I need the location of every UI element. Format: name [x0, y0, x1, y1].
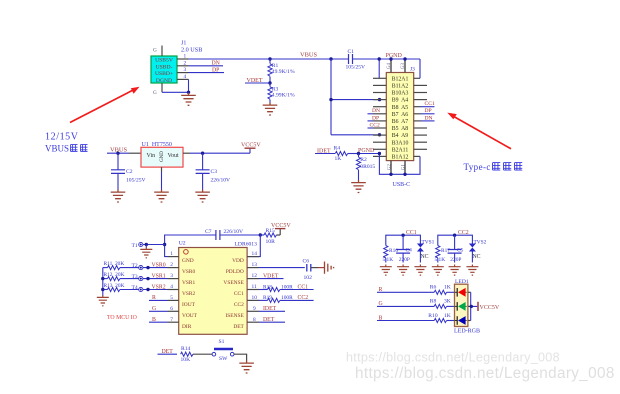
wire Vout to VCC5V — [190, 148, 250, 153]
svg-text:1K: 1K — [444, 285, 451, 291]
wire left vertical R11-R13 — [102, 268, 104, 296]
J1 pin G bottom — [153, 83, 162, 96]
svg-text:R11 20K: R11 20K — [104, 261, 125, 267]
svg-text:VBUS: VBUS — [300, 52, 317, 59]
ground R3 — [263, 103, 278, 116]
svg-text:DET: DET — [233, 324, 244, 330]
svg-text:CC2: CC2 — [458, 230, 469, 236]
svg-text:G2: G2 — [388, 163, 393, 169]
ground C2 — [111, 190, 126, 203]
svg-text:12/15V: 12/15V — [45, 132, 79, 143]
resistor R15 10R — [260, 228, 280, 245]
svg-text:G: G — [379, 301, 383, 307]
U2 pin numbers left — [170, 251, 173, 323]
resistor R12 20K — [103, 272, 139, 281]
wire CC1 net top — [386, 235, 421, 242]
svg-text:CC2: CC2 — [234, 302, 244, 308]
wire VDET stub — [245, 82, 270, 84]
svg-text:DIR: DIR — [182, 324, 192, 330]
wire VBUS vertical to type-c — [331, 59, 380, 135]
wire C6 to ground — [311, 267, 318, 269]
resistor R3 4.99K/1% — [268, 83, 295, 103]
svg-text:USBD+: USBD+ — [155, 71, 173, 77]
wire IDET — [315, 153, 335, 155]
junction PGND R2 — [357, 152, 360, 155]
svg-text:DGND: DGND — [156, 78, 172, 84]
svg-text:USB5V: USB5V — [155, 58, 173, 64]
svg-text:T2: T2 — [132, 263, 138, 269]
svg-text:R6: R6 — [430, 285, 437, 291]
svg-text:B9 A4: B9 A4 — [392, 98, 409, 104]
svg-text:NC: NC — [421, 254, 429, 260]
svg-text:ISENSE: ISENSE — [226, 313, 245, 319]
ground C6 rotated — [325, 262, 334, 274]
power port VCC5V at R15 — [271, 223, 291, 229]
svg-text:C6: C6 — [303, 258, 310, 264]
svg-text:1K: 1K — [335, 156, 342, 162]
svg-text:DP: DP — [425, 108, 432, 114]
wire R pin5 — [149, 299, 168, 301]
svg-text:G: G — [153, 48, 157, 54]
svg-text:VSR1: VSR1 — [182, 280, 195, 286]
svg-text:3: 3 — [170, 273, 173, 279]
svg-text:B5 A8: B5 A8 — [392, 126, 409, 132]
resistor R16 5.1K — [383, 242, 399, 263]
wire DET to R14 — [158, 353, 178, 355]
ground TVS1 — [414, 265, 426, 276]
USB-C shield pin G1 — [402, 161, 407, 175]
svg-text:Type-c: Type-c — [464, 162, 491, 172]
wire B net to R10 — [377, 320, 434, 322]
ground R2 — [351, 180, 366, 193]
svg-text:R4: R4 — [334, 146, 341, 152]
wire pin13 to C6 — [259, 267, 305, 269]
junction R15 pin14 — [259, 233, 262, 236]
svg-text:14: 14 — [252, 251, 258, 257]
wire B pin7 — [149, 321, 168, 323]
junction G2 — [389, 173, 392, 176]
svg-text:NC: NC — [473, 254, 481, 260]
resistor R19 100R — [259, 295, 314, 302]
svg-text:B10A3: B10A3 — [392, 91, 409, 97]
wire R net to R6 — [377, 291, 434, 293]
svg-text:DP: DP — [212, 67, 219, 73]
svg-text:11: 11 — [252, 284, 257, 290]
svg-text:CC1: CC1 — [425, 101, 435, 107]
connector J3 USB-C body — [386, 73, 413, 161]
svg-text:VDD: VDD — [232, 258, 244, 264]
wire VBUS rail — [189, 58, 349, 60]
svg-text:G1: G1 — [402, 163, 407, 169]
svg-text:VDET: VDET — [247, 78, 263, 84]
svg-text:5: 5 — [170, 295, 173, 301]
wire DP left stub — [368, 120, 374, 122]
svg-text:C7: C7 — [205, 229, 212, 235]
svg-text:CC2: CC2 — [298, 295, 309, 301]
svg-text:105/25V: 105/25V — [126, 178, 146, 184]
J1 pin numbers 1 2 3 4 — [184, 54, 187, 80]
svg-text:1K: 1K — [444, 313, 451, 319]
svg-text:VSR1: VSR1 — [152, 273, 166, 279]
power port VCC5V at U1 — [241, 143, 261, 149]
ground C3 — [195, 190, 210, 203]
svg-text:C3: C3 — [211, 169, 218, 175]
J1 pin G top — [153, 46, 162, 57]
junction stub B9A4 — [378, 98, 381, 101]
svg-text:Vout: Vout — [168, 153, 180, 159]
ground U1 — [154, 190, 169, 203]
svg-text:5.1K: 5.1K — [435, 257, 446, 263]
annotation 12/15V VBUS output — [45, 132, 88, 154]
svg-text:VSR0: VSR0 — [182, 269, 195, 275]
junction stub B4A9 — [378, 133, 381, 136]
svg-text:B2A11: B2A11 — [392, 147, 409, 153]
U2 left pin stubs — [168, 257, 179, 323]
svg-text:https://blog.csdn.net/Legendar: https://blog.csdn.net/Legendary_008 — [346, 351, 560, 365]
switch S1 SW — [212, 339, 234, 362]
U1 Vin stub — [129, 152, 141, 154]
svg-text:https://blog.csdn.net/Legendar: https://blog.csdn.net/Legendary_008 — [355, 365, 615, 382]
LED red element — [455, 288, 467, 297]
svg-text:T3: T3 — [132, 274, 138, 280]
LED green element — [455, 302, 467, 311]
svg-text:12: 12 — [252, 273, 258, 279]
resistor R17 5.1K — [435, 242, 451, 263]
svg-text:GND: GND — [160, 151, 165, 162]
junction VSR1 — [146, 277, 149, 280]
wire pin12 VDET — [259, 278, 284, 280]
LED-RGB LED1 body — [455, 284, 468, 326]
svg-text:B6 A7: B6 A7 — [392, 119, 409, 125]
capacitor C4 220P — [396, 235, 412, 263]
svg-text:PGND: PGND — [386, 53, 403, 59]
J1 pin stubs — [177, 59, 189, 79]
wire DN from J1 pin2 — [189, 65, 224, 67]
svg-text:C1: C1 — [348, 49, 355, 55]
capacitor C6 102 — [303, 258, 313, 280]
svg-text:G3: G3 — [401, 62, 406, 68]
svg-text:CC2: CC2 — [370, 122, 380, 128]
ground C4 — [397, 265, 409, 276]
wire C1 right to PGND corner — [353, 58, 421, 60]
junction PGND-B12 — [378, 57, 381, 60]
LED right stubs — [468, 292, 471, 320]
connector J1 body — [151, 56, 177, 84]
wire U2 top rail — [165, 235, 261, 257]
svg-text:PDLDO: PDLDO — [226, 269, 244, 275]
svg-text:CC1: CC1 — [234, 291, 244, 297]
svg-text:100R: 100R — [281, 284, 293, 290]
LED blue element — [455, 316, 467, 325]
svg-text:105/25V: 105/25V — [346, 65, 366, 71]
svg-text:DET: DET — [263, 317, 275, 323]
wire CC2 left stub — [368, 127, 374, 129]
svg-text:R12 20K: R12 20K — [104, 272, 125, 278]
resistor R10 1K — [428, 313, 454, 323]
wire CC2 net top — [438, 235, 473, 242]
USB-C right pin stubs — [414, 78, 427, 156]
resistor R18 100R — [259, 284, 314, 291]
svg-text:DN: DN — [372, 108, 380, 114]
svg-text:DN: DN — [425, 115, 433, 121]
ground J1 — [181, 93, 196, 106]
svg-text:49.9K/1%: 49.9K/1% — [272, 69, 295, 75]
svg-text:2.0 USB: 2.0 USB — [181, 47, 202, 54]
ground TVS2 — [466, 265, 478, 276]
wire G net to R8 — [377, 305, 434, 307]
test point T4 — [132, 285, 168, 292]
junction VBUS-C1 — [329, 57, 332, 60]
ground R11-R13 — [97, 295, 109, 306]
svg-text:1: 1 — [170, 251, 173, 257]
wire pin9 IDET — [259, 310, 285, 312]
svg-text:4: 4 — [170, 284, 173, 290]
svg-text:VSR2: VSR2 — [152, 284, 166, 290]
test point T2 — [132, 263, 168, 270]
resistor R14 10K — [181, 346, 194, 363]
USB-C shield pin G4 — [387, 59, 392, 73]
red arrow left — [70, 87, 140, 123]
USB-C shield pin G3 — [401, 59, 406, 73]
wire VBUS to U1 — [107, 152, 129, 154]
annotation Type-c input — [464, 162, 523, 172]
wire bottom PGND loop — [359, 154, 421, 175]
capacitor C3 226/10V — [196, 153, 230, 189]
svg-text:VBUS: VBUS — [45, 144, 69, 154]
svg-text:J3: J3 — [410, 67, 415, 73]
regulator U1 HT7550 — [141, 147, 183, 167]
svg-text:U2: U2 — [179, 240, 186, 246]
wire LED common anode — [471, 292, 478, 320]
resistor R8 3K — [430, 299, 455, 309]
junction CC1 — [401, 234, 404, 237]
svg-text:R13 20K: R13 20K — [104, 283, 125, 289]
U1 GND stub and wire — [161, 167, 163, 172]
svg-text:C5: C5 — [457, 248, 464, 254]
wire DP from J1 pin3 — [189, 72, 225, 74]
ground C5 — [449, 265, 461, 276]
junction PGND corner — [378, 152, 381, 155]
IC U2 LDR6013 body — [179, 248, 247, 335]
svg-text:0R015: 0R015 — [360, 164, 375, 170]
svg-text:220P: 220P — [399, 257, 410, 263]
svg-text:B11A2: B11A2 — [392, 84, 409, 90]
wire J1 pin4 to ground — [162, 79, 189, 92]
svg-text:TVS2: TVS2 — [474, 239, 487, 245]
USB-C shield pin G2 — [388, 161, 393, 175]
svg-text:5.1K: 5.1K — [383, 257, 394, 263]
wire S1 to ground — [234, 354, 247, 360]
U2 right pin stubs — [247, 257, 259, 323]
junction VBUS B9A4 — [329, 98, 332, 101]
svg-text:TO MCU IO: TO MCU IO — [107, 315, 137, 321]
junction R1-R3 — [268, 81, 271, 84]
svg-text:CC1: CC1 — [406, 230, 417, 236]
svg-text:VDET: VDET — [263, 273, 279, 279]
svg-text:2: 2 — [170, 262, 173, 268]
svg-text:SW: SW — [219, 356, 228, 362]
svg-text:8: 8 — [253, 317, 256, 323]
svg-text:10: 10 — [252, 295, 258, 301]
svg-text:4.99K/1%: 4.99K/1% — [272, 92, 295, 98]
svg-text:G: G — [152, 306, 156, 312]
svg-text:Vin: Vin — [147, 153, 156, 159]
junction T1 rail — [163, 243, 166, 246]
svg-text:G4: G4 — [387, 62, 392, 68]
svg-text:R8: R8 — [430, 299, 437, 305]
junction VSR0 — [146, 266, 149, 269]
wire pin8 DET — [259, 321, 285, 323]
svg-text:102: 102 — [304, 275, 313, 281]
wire DN left stub — [368, 113, 374, 115]
svg-text:T1: T1 — [132, 243, 138, 249]
wire G pin6 — [149, 310, 168, 312]
junction G1 — [403, 173, 406, 176]
svg-text:B7 A6: B7 A6 — [392, 112, 409, 118]
svg-text:R18: R18 — [263, 284, 272, 290]
wire PGND to B12A1 left — [378, 59, 380, 78]
svg-text:6: 6 — [170, 306, 173, 312]
junction J1 ground — [187, 91, 190, 94]
U1 Vout stub — [183, 152, 190, 154]
svg-text:LED-RGB: LED-RGB — [454, 329, 480, 335]
svg-text:100R: 100R — [281, 295, 293, 301]
test point T3 — [132, 274, 168, 281]
svg-text:226/10V: 226/10V — [211, 178, 231, 184]
junction G4 — [389, 57, 392, 60]
junction R13 — [101, 288, 104, 291]
resistor R1 49.9K/1% — [268, 59, 295, 83]
svg-text:B3A10: B3A10 — [392, 140, 409, 146]
svg-text:T4: T4 — [132, 285, 138, 291]
capacitor C1 105/25V — [346, 49, 366, 71]
svg-text:R: R — [379, 287, 383, 293]
svg-text:IOUT: IOUT — [182, 302, 196, 308]
svg-text:220P: 220P — [450, 257, 461, 263]
svg-text:VCC5V: VCC5V — [271, 223, 291, 229]
wire DP right stub — [421, 113, 435, 115]
svg-text:TVS1: TVS1 — [422, 239, 435, 245]
svg-text:226/10V: 226/10V — [224, 229, 244, 235]
svg-text:G: G — [153, 90, 157, 96]
resistor R13 20K — [103, 283, 139, 292]
junction C2 — [116, 152, 119, 155]
junction C3 — [201, 152, 204, 155]
resistor R4 1K — [334, 146, 359, 162]
svg-text:CC1: CC1 — [298, 284, 309, 290]
svg-text:IDET: IDET — [263, 306, 277, 312]
wire junction to pin14 — [247, 235, 260, 257]
svg-text:13: 13 — [252, 262, 258, 268]
svg-text:DP: DP — [372, 115, 379, 121]
TVS diode TVS2 NC — [469, 239, 487, 262]
TVS diode TVS1 NC — [417, 239, 435, 262]
capacitor C5 220P — [448, 235, 464, 263]
svg-text:C2: C2 — [126, 169, 133, 175]
junction VBUS-R1 — [268, 57, 271, 60]
junction G3 — [403, 57, 406, 60]
capacitor C2 105/25V — [111, 153, 146, 189]
svg-text:B12A1: B12A1 — [392, 76, 409, 82]
svg-text:S1: S1 — [219, 339, 225, 345]
wire DN right stub — [421, 120, 435, 122]
svg-text:10R: 10R — [266, 239, 276, 245]
svg-text:B8 A5: B8 A5 — [392, 105, 409, 111]
svg-text:VOUT: VOUT — [182, 313, 198, 319]
svg-text:B: B — [379, 315, 383, 321]
svg-text:LDR6013: LDR6013 — [235, 242, 258, 248]
svg-text:USBD-: USBD- — [156, 64, 173, 70]
svg-text:R19: R19 — [263, 295, 272, 301]
resistor R2 0R015 — [356, 154, 375, 181]
svg-text:B4 A9: B4 A9 — [392, 133, 409, 139]
svg-text:VCC5V: VCC5V — [480, 305, 500, 311]
junction CC2 — [453, 234, 456, 237]
capacitor C7 226/10V — [205, 229, 243, 240]
ground T1 — [145, 245, 147, 248]
svg-text:VSR0: VSR0 — [152, 262, 166, 268]
wire right PGND down to B12A1 — [419, 59, 421, 78]
USB-C left pin stubs — [373, 78, 386, 156]
power port VCC5V at LED — [478, 302, 500, 311]
svg-text:R10: R10 — [428, 313, 438, 319]
svg-text:10K: 10K — [181, 357, 191, 363]
svg-text:VCC5V: VCC5V — [241, 143, 261, 149]
ground R16 — [380, 265, 392, 276]
svg-text:9: 9 — [253, 306, 256, 312]
svg-text:B1A12: B1A12 — [392, 155, 409, 161]
svg-text:3K: 3K — [444, 299, 451, 305]
svg-text:VSR2: VSR2 — [182, 291, 195, 297]
U2 pin numbers right — [252, 251, 258, 323]
wire CC1 right stub — [421, 106, 435, 108]
svg-text:R2: R2 — [360, 157, 367, 163]
svg-text:7: 7 — [170, 317, 173, 323]
junction T1 ground — [145, 243, 148, 246]
red arrow right — [447, 113, 511, 149]
svg-text:R: R — [152, 295, 156, 301]
junction LED common — [470, 305, 473, 308]
ground S1 — [239, 361, 254, 374]
svg-text:U1 HT7550: U1 HT7550 — [142, 142, 172, 148]
svg-text:C4: C4 — [406, 248, 413, 254]
svg-text:B: B — [152, 317, 156, 323]
svg-text:R14: R14 — [181, 346, 191, 352]
resistor R6 1K — [430, 285, 455, 295]
svg-text:PGND: PGND — [358, 148, 375, 154]
svg-text:DN: DN — [212, 61, 221, 67]
ground R17 — [432, 265, 444, 276]
svg-text:VSENSE: VSENSE — [223, 280, 244, 286]
junction VSR2 — [146, 288, 149, 291]
resistor R11 20K — [103, 261, 139, 270]
connector J1 designator — [181, 41, 202, 54]
svg-text:USB-C: USB-C — [393, 182, 411, 188]
svg-text:GND: GND — [182, 258, 194, 264]
junction R12 — [101, 277, 104, 280]
test point T1 — [132, 242, 165, 249]
wire R14 to S1 — [193, 353, 212, 355]
